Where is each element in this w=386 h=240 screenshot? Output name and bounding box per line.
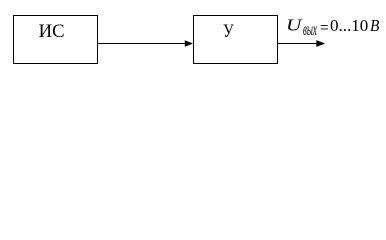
label subscript вых <box>303 21 317 39</box>
label ИС <box>39 23 65 42</box>
block У (amplifier block) <box>193 15 278 64</box>
label U (output voltage symbol) <box>286 17 301 34</box>
block ИС (measuring system source block) <box>13 15 98 64</box>
label = <box>320 19 329 36</box>
label В (volts) <box>370 17 379 34</box>
label value 0...10 <box>330 17 368 34</box>
wires and arrows <box>0 0 386 77</box>
label У <box>223 23 234 42</box>
arrowhead output <box>316 40 325 47</box>
wire from ИС to У <box>98 43 186 45</box>
arrowhead into У <box>185 40 193 47</box>
wire output from У <box>278 43 318 45</box>
